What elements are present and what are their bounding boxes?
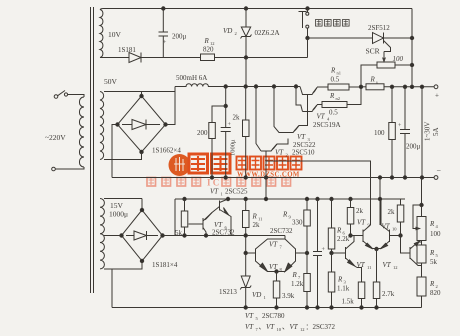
label 2SC525 <box>225 188 248 196</box>
label R11 <box>252 213 263 222</box>
wire VT4 emitter to Rn2 <box>317 104 322 106</box>
label R11 2k <box>253 221 261 229</box>
terminal plus <box>434 85 439 100</box>
svg-text:1: 1 <box>221 192 223 197</box>
node bridge2 top <box>140 208 143 211</box>
node cap317 top <box>316 197 319 200</box>
node bridge1 left <box>116 123 119 126</box>
terminal minus <box>434 167 441 180</box>
wire bottom rail <box>112 307 422 309</box>
wire SCR line <box>308 37 413 39</box>
svg-text:+: + <box>435 92 439 100</box>
svg-text:VT: VT <box>317 113 326 121</box>
resistor R7 1.2k <box>304 253 311 308</box>
wire 50V top to bridge <box>104 91 175 93</box>
node bridge2 right <box>161 234 164 237</box>
svg-text:VT: VT <box>297 133 306 141</box>
svg-text:R: R <box>252 213 258 221</box>
svg-text:2.2k: 2.2k <box>337 235 350 243</box>
svg-text:−: − <box>437 167 442 176</box>
wire emitter rail y235 <box>175 235 285 237</box>
label 820 <box>203 46 214 54</box>
svg-text:3.9k: 3.9k <box>282 292 295 300</box>
transformer T1 core <box>91 7 94 293</box>
label 1S1662x4 <box>152 147 181 155</box>
wire pot right <box>395 64 412 66</box>
node minus 200u <box>403 176 406 179</box>
svg-text:12: 12 <box>393 265 398 270</box>
wire 200 bottom <box>211 139 213 178</box>
resistor 2k top-section box <box>243 87 250 137</box>
svg-text:1.5k: 1.5k <box>342 298 355 306</box>
node out sense <box>420 85 423 88</box>
secondary winding 15V <box>100 199 104 269</box>
svg-text:2SC732: 2SC732 <box>212 229 235 237</box>
wire pot left to node Rs <box>361 65 377 87</box>
svg-text:5k: 5k <box>430 258 438 266</box>
label ~220V <box>45 133 66 142</box>
resistor R11 2k box <box>243 199 250 253</box>
label VT7 <box>269 241 283 250</box>
svg-text:VT: VT <box>382 223 391 231</box>
label 100 output <box>374 129 385 137</box>
label 1S181x4 <box>152 261 178 269</box>
svg-text:SCR: SCR <box>366 47 380 56</box>
wire 50V rail <box>226 86 300 88</box>
wire bridge2 bottom out <box>104 261 142 269</box>
capacitor 200u output <box>398 87 410 178</box>
label 2SC732 left <box>212 229 235 237</box>
transistor VT4 2SC519A <box>303 105 318 112</box>
potentiometer 100 arrow <box>383 52 386 62</box>
label VT3 <box>297 133 311 142</box>
wire 15V top <box>104 198 142 200</box>
node 5k top <box>183 197 186 200</box>
node cap200u top <box>162 7 165 10</box>
label R3 <box>337 276 347 285</box>
node minus stub <box>378 176 381 179</box>
svg-text:100: 100 <box>374 129 385 137</box>
svg-text:5A: 5A <box>432 127 440 136</box>
svg-text:VD: VD <box>223 27 232 35</box>
svg-text:VT: VT <box>383 261 392 269</box>
svg-text:2SC525: 2SC525 <box>225 188 248 196</box>
resistor R12 box <box>201 54 215 61</box>
svg-text:R: R <box>329 92 335 100</box>
label 500mH 6A <box>176 74 207 82</box>
label 200u <box>172 33 187 41</box>
node 5k bottom <box>183 234 186 237</box>
label 5k <box>175 229 183 237</box>
label 200u output <box>406 143 421 151</box>
wire cascade c3 drop <box>296 87 303 112</box>
wire 15V minus drop <box>111 269 113 308</box>
wire bridge1 left down <box>112 125 118 178</box>
label VT12 <box>383 261 398 270</box>
svg-text:2k: 2k <box>233 114 241 122</box>
wire diff2 tail <box>372 249 381 283</box>
node x266 rail2 <box>264 197 267 200</box>
node lens emitter <box>275 270 278 273</box>
svg-text:50V: 50V <box>104 77 118 86</box>
zener VD2 <box>241 9 252 58</box>
node bottom vd1 <box>244 306 247 309</box>
node minus sense <box>420 176 423 179</box>
label R4 100 <box>430 230 441 238</box>
label 10V <box>108 30 122 39</box>
label 1.5k <box>342 298 355 306</box>
label 330 <box>292 219 303 227</box>
svg-text:R: R <box>204 37 210 45</box>
wire VT2 emitter to VT3 base <box>277 139 288 145</box>
node cascade c2 <box>272 85 275 88</box>
transistor VT9 <box>351 225 373 249</box>
reset switch SB <box>299 9 309 39</box>
svg-text:：2SC372: ：2SC372 <box>306 323 336 331</box>
wire bottom section top rail <box>175 198 405 200</box>
node bridge1 right <box>164 123 167 126</box>
wire bridge2 right riser <box>163 199 176 236</box>
node 2k1 top <box>349 197 352 200</box>
wire bridge1 right riser <box>166 87 176 125</box>
node bridge1 bottom <box>140 150 143 153</box>
node bridge1 top <box>140 94 143 97</box>
svg-text:0.5: 0.5 <box>331 76 340 84</box>
resistor Rn2 box <box>322 102 347 108</box>
node bottom 2.7k <box>375 306 378 309</box>
node lens left base <box>244 251 247 254</box>
label Rn2 0.5 <box>329 109 338 117</box>
node VD2 top <box>244 7 247 10</box>
wire right riser top <box>411 9 413 87</box>
label 5A rotated <box>432 127 440 136</box>
resistor 100 output <box>389 87 396 178</box>
svg-text:VT: VT <box>245 312 254 320</box>
bridge rectifier 1S181x4 diamond <box>122 210 163 261</box>
svg-text:2SC732: 2SC732 <box>270 227 293 235</box>
node diff2 emitters <box>375 247 378 250</box>
node bottom 3.9k <box>275 306 278 309</box>
node 2k top <box>244 85 247 88</box>
label VD1 <box>252 291 266 300</box>
svg-text:2: 2 <box>286 153 288 158</box>
svg-text:2k: 2k <box>253 221 261 229</box>
resistor Rs box <box>361 84 384 90</box>
node bottom 1.2k <box>305 306 308 309</box>
diode 1S181 <box>128 53 201 63</box>
svg-text:100: 100 <box>393 55 404 63</box>
label reset switch 复位开关 <box>316 20 350 27</box>
inductor 500mH 6A <box>175 84 226 87</box>
label Rn1 <box>330 67 341 76</box>
label 2SC519A <box>313 121 341 129</box>
label 1000u <box>109 210 128 219</box>
svg-text:R: R <box>336 227 342 235</box>
wire feedback y161 <box>266 161 371 225</box>
wire Rn2 right riser <box>347 87 361 105</box>
node bottom 1.5k <box>360 306 363 309</box>
node out 200u <box>403 85 406 88</box>
label Rn1 0.5 <box>331 76 340 84</box>
svg-text:02Z6.2A: 02Z6.2A <box>255 29 280 37</box>
svg-text:R: R <box>370 76 376 84</box>
label VD2 <box>223 27 237 36</box>
resistor R2 820 <box>417 277 426 296</box>
svg-text:、: 、 <box>259 323 266 331</box>
transistor VT6 2SC732 <box>189 207 220 236</box>
label VT2 <box>275 149 288 158</box>
label 2k first <box>356 207 364 215</box>
wire bridge1 bottom to winding <box>104 152 142 160</box>
node minus 100 <box>390 176 393 179</box>
node scr right <box>410 36 413 39</box>
node minus 200 <box>210 176 213 179</box>
diff pair VT7 VT8 lens <box>246 236 307 272</box>
node pot right <box>410 63 413 66</box>
label R4 <box>429 220 439 229</box>
wire VD2 down to 50V rail <box>245 58 247 87</box>
svg-text:2: 2 <box>235 31 237 36</box>
svg-text:500mH 6A: 500mH 6A <box>176 74 207 82</box>
svg-text:VT: VT <box>245 323 254 331</box>
label VT11 <box>357 261 372 270</box>
label R2 820 <box>430 289 441 297</box>
node 1000u top <box>224 85 227 88</box>
node lens right base <box>305 251 308 254</box>
node VT1 collector <box>226 197 229 200</box>
node vt10 base <box>399 234 402 237</box>
svg-text:VT: VT <box>266 323 275 331</box>
svg-text:VT: VT <box>290 323 299 331</box>
svg-text:2SC522: 2SC522 <box>293 141 316 149</box>
wire riser y57 to y38 <box>307 38 309 58</box>
svg-text:330: 330 <box>292 219 303 227</box>
label VT8 <box>269 263 283 272</box>
svg-text:R: R <box>429 280 435 288</box>
label 2.7k <box>382 290 395 298</box>
wire VT3 emitter to VT4 base <box>299 112 308 126</box>
SCR 2SF512 <box>373 33 391 52</box>
wire top rail 10V <box>103 8 412 10</box>
node 2k2 rail <box>378 197 381 200</box>
wire 1000u lead <box>225 87 227 128</box>
svg-text:VT: VT <box>210 188 219 196</box>
watermark text 维库 <box>189 154 230 173</box>
label R5 5k <box>430 258 438 266</box>
wire stub 177-199 <box>379 178 381 226</box>
transistor VT top (drives Rn1) <box>300 87 317 112</box>
resistor Rn1 box <box>328 84 349 90</box>
label R9 <box>282 211 292 220</box>
label 2k top-section <box>233 114 241 122</box>
svg-text:1S181: 1S181 <box>118 46 136 54</box>
svg-text:2k: 2k <box>356 207 364 215</box>
wire sense chain <box>421 178 423 308</box>
wire bridge2 left stub <box>104 235 122 237</box>
svg-text:2SC510: 2SC510 <box>292 149 315 157</box>
svg-text:10: 10 <box>277 327 282 332</box>
node minus vt2 <box>264 176 267 179</box>
svg-text:820: 820 <box>203 46 214 54</box>
label R2 <box>429 280 438 289</box>
label VT10 <box>382 223 398 232</box>
node 200 branch <box>224 104 227 107</box>
wire cascade c1 drop <box>256 87 261 152</box>
svg-text:1000μ: 1000μ <box>109 210 128 219</box>
label R6 <box>336 227 346 236</box>
transistor VT1 2SC525 <box>220 199 232 236</box>
transistor VT11 left <box>332 236 358 268</box>
watermark text 电子市场网 <box>237 157 302 170</box>
label R7 <box>292 271 302 280</box>
svg-text:1~30V: 1~30V <box>424 122 432 141</box>
potentiometer R4 100 <box>417 217 426 241</box>
watermark text WWW.DZSC.COM <box>237 172 300 179</box>
node minus 1000u <box>224 176 227 179</box>
node VD2 bottom <box>244 56 247 59</box>
wire vt2 base drop <box>265 161 267 199</box>
svg-text:820: 820 <box>430 289 441 297</box>
resistor 1.5k <box>358 282 365 308</box>
wire output plus rail <box>384 86 434 88</box>
resistor R6 2.2k <box>328 199 335 253</box>
wire sense drop <box>421 87 423 178</box>
watermark text row 全球最大IC采购网站 <box>147 178 291 188</box>
svg-text:2.7k: 2.7k <box>382 290 395 298</box>
resistor 3.9k <box>273 272 280 308</box>
node cascade c3 <box>294 85 297 88</box>
label 1.2k <box>291 280 304 288</box>
primary bottom terminal <box>52 167 84 171</box>
svg-text:VD: VD <box>252 291 261 299</box>
svg-text:R: R <box>292 271 298 279</box>
svg-text:s: s <box>376 80 378 85</box>
node bridge2 left <box>120 234 123 237</box>
svg-text:R: R <box>330 67 336 75</box>
resistor 200 box <box>209 123 216 139</box>
node bridge2 bottom <box>140 259 143 262</box>
transistor VT3 2SC522 <box>283 126 299 133</box>
pot R4 wiper loop <box>413 205 422 230</box>
label R5 <box>429 249 439 258</box>
label 2SC510 <box>292 149 315 157</box>
label 15V <box>110 201 124 210</box>
transformer primary winding <box>79 97 84 167</box>
node bottom 1.1k <box>330 306 333 309</box>
watermark logo circle <box>169 154 191 176</box>
svg-text:11: 11 <box>367 265 371 270</box>
svg-text:2SC780: 2SC780 <box>262 312 285 320</box>
svg-text:2SC519A: 2SC519A <box>313 121 341 129</box>
resistor 2.7k <box>373 282 380 308</box>
transistor VT10 <box>380 199 400 249</box>
svg-text:R: R <box>282 211 288 219</box>
label 100 pot <box>393 55 404 63</box>
svg-text:12: 12 <box>300 327 305 332</box>
svg-text:1: 1 <box>264 295 266 300</box>
label 2.2k <box>337 235 350 243</box>
resistor R9 330 <box>304 199 311 253</box>
resistor 2k second <box>397 199 404 236</box>
svg-text:1S213: 1S213 <box>219 288 237 296</box>
label 2k second <box>388 208 396 216</box>
resistor R5 5k <box>417 245 426 263</box>
svg-text:10: 10 <box>392 227 397 232</box>
capacitor 1000u <box>221 122 232 178</box>
node switch bottom <box>306 36 309 39</box>
label 1S213 <box>219 288 237 296</box>
svg-text:、: 、 <box>282 323 289 331</box>
wire 10V bottom <box>104 57 128 59</box>
svg-text:1S181×4: 1S181×4 <box>152 261 178 269</box>
svg-text:1.1k: 1.1k <box>337 285 350 293</box>
node vt9 base <box>349 234 352 237</box>
node out 100 <box>390 85 393 88</box>
wire minus rail <box>112 177 434 179</box>
wire 2k bottom <box>245 137 247 178</box>
svg-text:2k: 2k <box>388 208 396 216</box>
svg-text:100: 100 <box>430 230 441 238</box>
wire Rn1 to node <box>349 86 361 88</box>
node VT6 collector <box>204 234 207 237</box>
label R12 <box>204 37 215 46</box>
label 50V <box>104 77 118 86</box>
node out riser <box>410 85 413 88</box>
label SCR <box>366 47 380 56</box>
primary switch S <box>54 91 84 99</box>
capacitor 200u <box>159 9 169 58</box>
potentiometer 100 box <box>377 62 395 68</box>
secondary winding 50V <box>100 92 104 160</box>
label 2SC522 <box>293 141 316 149</box>
node R11 top <box>244 197 247 200</box>
label 2SC732 pair <box>270 227 293 235</box>
label Rn2 <box>329 92 340 101</box>
bridge rectifier 1S1662x4 diamond <box>118 96 166 152</box>
svg-text:200μ: 200μ <box>172 33 187 41</box>
svg-text:1S1662×4: 1S1662×4 <box>152 147 181 155</box>
label VT9 <box>357 219 371 228</box>
resistor R3 1.1k <box>328 253 335 308</box>
svg-text:n2: n2 <box>336 96 341 101</box>
node 2.2k bottom <box>330 251 333 254</box>
svg-text:~220V: ~220V <box>45 133 66 142</box>
node cascade c1 <box>254 85 257 88</box>
node wiper top <box>420 203 423 206</box>
capacitor mid <box>313 199 326 308</box>
svg-text:R: R <box>429 220 435 228</box>
node reset switch top <box>306 7 309 10</box>
svg-text:200μ: 200μ <box>406 143 421 151</box>
label VT6 <box>214 221 228 230</box>
svg-text:1.2k: 1.2k <box>291 280 304 288</box>
svg-text:0.5: 0.5 <box>329 109 338 117</box>
svg-text:2SF512: 2SF512 <box>368 24 390 32</box>
wire VT11 emitter to 1.5k <box>357 268 362 283</box>
wire bridge2 top stub <box>141 199 143 211</box>
zener VD1 1S213 <box>240 253 251 308</box>
transistor VT12 right <box>401 236 422 266</box>
svg-text:VT: VT <box>357 219 366 227</box>
node R9 top <box>305 197 308 200</box>
secondary winding 10V <box>100 9 104 58</box>
node Rs left <box>359 85 362 88</box>
svg-text:200: 200 <box>197 129 208 137</box>
svg-text:10V: 10V <box>108 30 122 39</box>
label 2SF512 <box>368 24 390 32</box>
label 1000u vertical <box>230 139 237 156</box>
label 1-30V rotated <box>424 122 432 141</box>
